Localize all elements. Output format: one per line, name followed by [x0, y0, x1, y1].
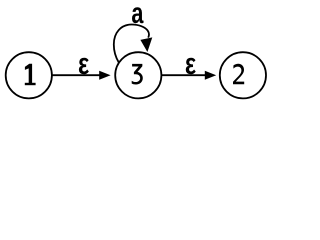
self loop arc on state 3	[114, 24, 149, 62]
wire arrow 1 to 3	[52, 71, 111, 80]
state 3 circle	[115, 52, 161, 98]
state 1 circle	[6, 52, 52, 98]
state 1 label "1"	[25, 64, 36, 86]
svg-text:ε: ε	[78, 46, 89, 81]
state 2 label "2"	[233, 64, 244, 85]
state 3 label "3"	[132, 64, 143, 85]
svg-text:a: a	[131, 0, 144, 30]
self loop arrowhead	[140, 37, 152, 52]
svg-text:ε: ε	[185, 46, 196, 81]
state 2 circle	[220, 52, 266, 98]
wire arrow 3 to 2	[161, 71, 216, 80]
